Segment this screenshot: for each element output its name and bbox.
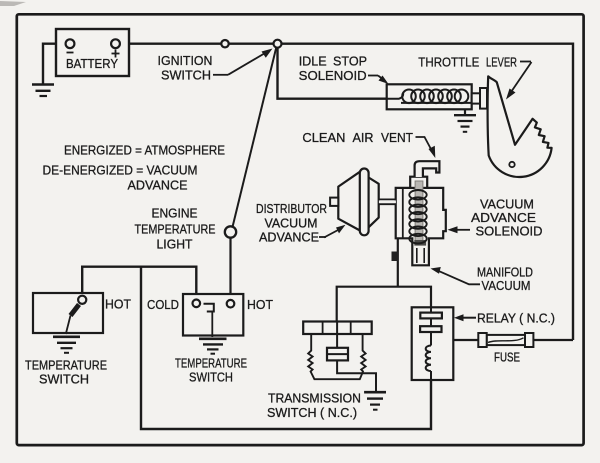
wire: diagonal junction to engine temperature light (233, 47, 277, 227)
svg-text:VACUUM: VACUUM (482, 278, 531, 293)
node: ignition switch connector (221, 40, 228, 47)
svg-text:TEMPERATURE: TEMPERATURE (175, 356, 247, 371)
svg-text:ADVANCE: ADVANCE (259, 230, 319, 245)
svg-text:STOP: STOP (333, 54, 367, 69)
svg-text:SOLENOID: SOLENOID (299, 68, 367, 83)
svg-text:HOT: HOT (105, 297, 131, 312)
ground: left temperature switch (53, 337, 80, 353)
wire: lamp to right temp switch HOT terminal (229, 238, 231, 300)
throttle lever (488, 76, 552, 177)
vacuum advance solenoid U1 (392, 177, 446, 266)
svg-text:ADVANCE: ADVANCE (128, 178, 188, 193)
wire: relay to fuse to right riser (431, 339, 573, 341)
svg-text:SWITCH: SWITCH (189, 370, 233, 385)
temperature switch S2 (right) (183, 294, 243, 337)
temperature switch S1 (left) (33, 293, 103, 334)
svg-text:DE-ENERGIZED = VACUUM: DE-ENERGIZED = VACUUM (43, 163, 198, 178)
label: TEMPERATURE SWITCH (left) (25, 358, 107, 387)
svg-text:VACUUM: VACUUM (265, 216, 318, 231)
wire: solenoid terminal down to distribution bus (397, 239, 399, 287)
label: IGNITION SWITCH (158, 49, 273, 83)
svg-text:SWITCH: SWITCH (161, 68, 211, 83)
svg-text:COLD: COLD (147, 297, 179, 312)
label: IDLE STOP SOLENOID (299, 54, 389, 85)
svg-text:IGNITION: IGNITION (158, 53, 213, 68)
label: ENGINE TEMPERATURE LIGHT (135, 206, 216, 252)
clean air vent pipe (415, 161, 440, 177)
wire: top bus from battery + to right side, down to fuse line (116, 44, 574, 340)
wire: long return from bus down to bottom and relay coil (141, 267, 431, 429)
svg-text:BATTERY: BATTERY (66, 56, 118, 71)
ground: idle stop solenoid (454, 109, 476, 132)
label: DISTRIBUTOR VACUUM ADVANCE (256, 201, 346, 245)
label: RELAY ( N.C.) (454, 311, 555, 326)
wire: battery negative to ground (43, 44, 68, 84)
svg-text:TEMPERATURE: TEMPERATURE (135, 222, 216, 237)
svg-text:THROTTLE: THROTTLE (418, 55, 479, 70)
ground: right temperature switch (199, 339, 227, 354)
label: MANIFOLD VACUUM (431, 265, 534, 294)
svg-text:LIGHT: LIGHT (157, 237, 193, 252)
svg-text:SWITCH: SWITCH (39, 372, 89, 387)
solenoid: idle stop solenoid (387, 84, 472, 109)
svg-text:LEVER: LEVER (486, 55, 517, 70)
svg-text:CLEAN: CLEAN (302, 130, 345, 145)
transmission switch S3 (303, 322, 376, 392)
svg-text:DISTRIBUTOR: DISTRIBUTOR (256, 201, 327, 216)
ground: battery (32, 85, 54, 97)
svg-text:SOLENOID: SOLENOID (476, 224, 543, 239)
label: CLEAN AIR VENT (302, 130, 435, 158)
ground: transmission switch (364, 392, 386, 410)
svg-text:TRANSMISSION: TRANSMISSION (268, 391, 361, 406)
plunger link to throttle lever (472, 88, 487, 109)
lamp: engine temperature light (225, 226, 236, 237)
svg-text:ENERGIZED = ATMOSPHERE: ENERGIZED = ATMOSPHERE (64, 143, 225, 158)
svg-text:IDLE: IDLE (299, 54, 327, 69)
distributor vacuum advance unit (330, 169, 396, 236)
label: TEMPERATURE SWITCH (right) (175, 356, 247, 385)
label: TRANSMISSION SWITCH ( N.C.) (267, 391, 361, 421)
svg-text:SWITCH ( N.C.): SWITCH ( N.C.) (267, 405, 357, 420)
label: VACUUM ADVANCE SOLENOID (448, 197, 543, 239)
svg-text:HOT: HOT (247, 297, 273, 312)
battery B1 (56, 29, 129, 76)
relay K1 (N.C.) (412, 307, 454, 380)
svg-text:VENT: VENT (381, 130, 413, 145)
wire: temp switch bus (82, 267, 196, 300)
node: main junction at ignition switch (274, 40, 282, 48)
wire: junction down and right to idle stop solenoid (278, 48, 387, 99)
scan smudge top-left (0, 1, 26, 6)
svg-text:FUSE: FUSE (494, 350, 520, 365)
fuse F1 (478, 333, 533, 347)
svg-text:RELAY ( N.C.): RELAY ( N.C.) (477, 311, 555, 326)
svg-text:AIR: AIR (353, 130, 374, 145)
label: THROTTLE LEVER (418, 55, 531, 100)
svg-text:ENGINE: ENGINE (152, 206, 198, 221)
wire: bus to transmission switch and relay (337, 287, 431, 323)
svg-text:TEMPERATURE: TEMPERATURE (25, 358, 107, 373)
